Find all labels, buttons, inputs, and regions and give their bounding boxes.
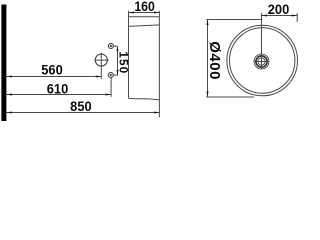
svg-text:610: 610	[47, 81, 68, 97]
svg-text:560: 560	[41, 62, 62, 78]
svg-text:150: 150	[117, 51, 131, 74]
svg-text:160: 160	[134, 0, 155, 14]
svg-text:850: 850	[70, 99, 91, 115]
svg-text:200: 200	[268, 1, 289, 17]
svg-text:Ø400: Ø400	[206, 41, 223, 80]
